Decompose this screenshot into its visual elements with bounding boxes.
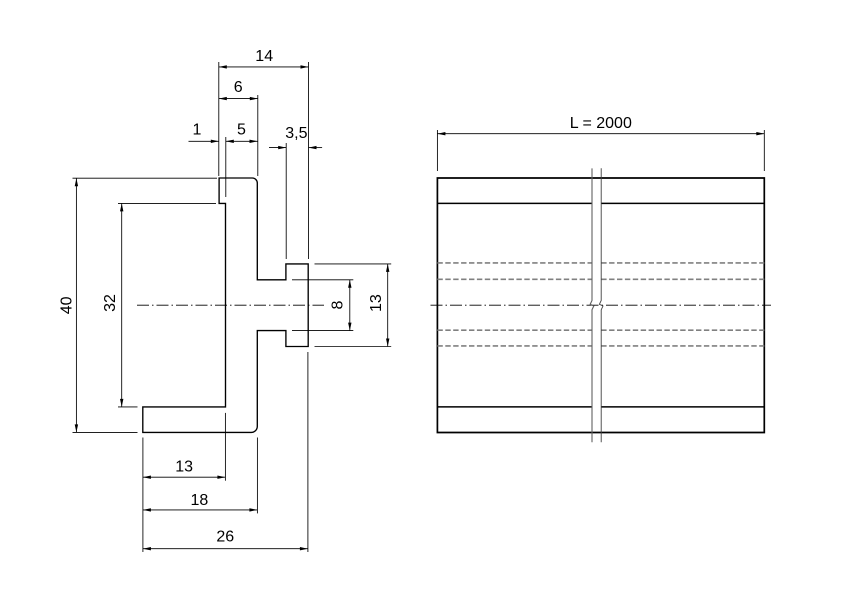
side view flange edge solid: [437, 406, 592, 408]
extension line web-left bottom: [224, 413, 226, 481]
centerline of cross-section: [137, 304, 324, 306]
extension line tab-right bottom: [307, 352, 309, 552]
extension line flange-top: [118, 406, 138, 408]
extension line neck-top: [292, 279, 353, 281]
svg-text:18: 18: [191, 492, 209, 509]
dimension 26: [143, 548, 308, 550]
dimension 13 right: [387, 264, 389, 347]
side view rectangle (right view): [437, 178, 764, 433]
side view step edge solid: [437, 202, 592, 204]
profile cross-section outline (left view): [143, 178, 308, 432]
extension line tab-right: [308, 62, 310, 259]
extension line profile-top: [73, 177, 218, 179]
dimension 32: [121, 203, 123, 407]
dimension 14: [219, 66, 309, 68]
dimension 5: [226, 140, 258, 142]
extension line tab-bottom: [315, 346, 392, 348]
dimension 40: [75, 178, 77, 432]
side view hidden line neck-top: [437, 278, 592, 280]
svg-text:6: 6: [234, 79, 243, 96]
extension line L-right: [763, 130, 765, 171]
dimension 6: [219, 98, 258, 100]
extension line web-right bottom: [256, 438, 258, 514]
side view centerline: [431, 304, 772, 306]
svg-text:40: 40: [59, 296, 76, 314]
extension line tab-top: [315, 263, 392, 265]
svg-text:26: 26: [216, 529, 234, 546]
svg-text:32: 32: [102, 294, 119, 312]
side view hidden line neck-bottom: [437, 329, 592, 331]
side view hidden line tab-bottom: [437, 345, 592, 347]
extension line L-left: [436, 130, 438, 171]
extension line flange-left bottom: [142, 438, 144, 553]
dimension 13 bottom: [143, 476, 226, 478]
dimension 1 (outside arrow): [189, 140, 219, 142]
svg-text:14: 14: [255, 48, 273, 65]
extension line neck-bottom: [292, 330, 353, 332]
extension line step: [118, 202, 216, 204]
extension line flange-bottom: [73, 431, 138, 433]
dimension 3,5 (outside arrows): [269, 147, 286, 149]
extension line web-left: [225, 137, 227, 197]
svg-text:8: 8: [330, 300, 347, 309]
svg-text:5: 5: [237, 121, 246, 138]
svg-text:3,5: 3,5: [285, 125, 307, 142]
extension line fin-right: [257, 95, 259, 176]
svg-text:13: 13: [368, 294, 385, 312]
svg-text:1: 1: [192, 122, 201, 139]
break line right: [599, 168, 603, 442]
svg-text:13: 13: [175, 458, 193, 475]
break line left: [590, 168, 594, 442]
side view hidden line tab-top: [437, 262, 592, 264]
extension line notch: [285, 143, 287, 259]
extension line fin-left: [218, 62, 220, 176]
dimension L = 2000: [437, 133, 764, 135]
svg-text:L = 2000: L = 2000: [570, 115, 632, 132]
dimension 18: [143, 509, 258, 511]
dimension 8: [349, 280, 351, 331]
